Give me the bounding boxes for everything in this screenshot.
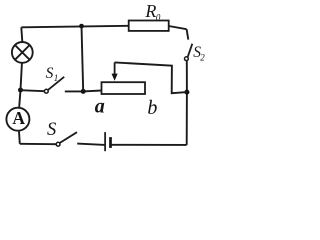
wire bottom left bbox=[20, 143, 56, 145]
switch S1 branch: wire node to S1 bbox=[21, 90, 45, 91]
wire battery to switch S bbox=[77, 144, 105, 145]
node middle junction bbox=[81, 89, 86, 94]
wire middle vertical bbox=[82, 26, 84, 92]
svg-text:A: A bbox=[12, 108, 25, 128]
rheostat body bbox=[102, 82, 146, 94]
lamp bbox=[12, 42, 33, 63]
switch S2 bbox=[185, 44, 206, 63]
svg-text:0: 0 bbox=[156, 12, 161, 22]
wire top horizontal bbox=[21, 26, 128, 28]
wire top-left corner to lamp bbox=[21, 27, 22, 41]
wire right vertical upper (S2 top terminal) bbox=[187, 29, 189, 39]
svg-text:b: b bbox=[147, 97, 157, 119]
label b bbox=[147, 97, 157, 119]
wire right vertical lower bbox=[186, 61, 188, 145]
svg-text:1: 1 bbox=[54, 73, 59, 83]
svg-text:2: 2 bbox=[200, 52, 205, 62]
switch S bbox=[47, 120, 77, 146]
node top junction bbox=[79, 24, 84, 29]
wire node to ammeter bbox=[19, 90, 20, 107]
wire S1 to rheostat bbox=[65, 90, 102, 93]
wire lamp to node bbox=[21, 63, 22, 90]
wire resistor to top-right corner bbox=[169, 26, 187, 29]
wire bottom right (battery to corner) bbox=[112, 144, 187, 146]
svg-text:a: a bbox=[95, 95, 105, 117]
label a bbox=[95, 95, 105, 117]
node left junction bbox=[18, 88, 23, 93]
switch S1 bbox=[44, 65, 64, 93]
svg-text:S: S bbox=[47, 120, 56, 140]
battery bbox=[105, 132, 110, 151]
ammeter A bbox=[6, 108, 29, 131]
svg-text:R: R bbox=[144, 1, 156, 21]
wire ammeter to bottom-left corner bbox=[18, 132, 21, 144]
svg-text:S: S bbox=[46, 65, 54, 82]
rheostat slider arrow bbox=[112, 62, 118, 80]
wire slider to right node bbox=[115, 62, 187, 93]
resistor R0 bbox=[129, 1, 169, 31]
node right junction bbox=[184, 90, 189, 95]
